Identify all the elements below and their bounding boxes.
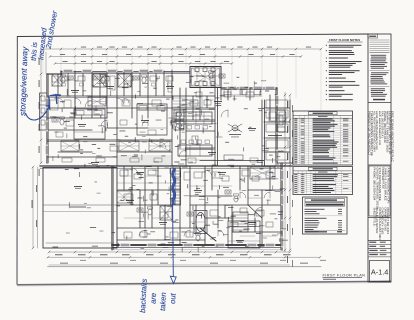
sinks — [69, 76, 75, 80]
svg-text:PHONE: (901) 555-0104: PHONE: (901) 555-0104 — [373, 168, 377, 201]
hall closet lines — [118, 155, 171, 157]
title block paragraphs — [371, 54, 387, 57]
bed master — [228, 221, 260, 248]
owner rotated text — [369, 166, 390, 216]
top extension verticals — [42, 49, 44, 74]
left dimension lines — [40, 52, 42, 163]
interior walls upper band — [57, 74, 59, 96]
blue note backstairs are taken out — [138, 278, 178, 313]
fireplace — [277, 110, 285, 132]
door arcs — [85, 100, 92, 107]
bed 1 — [74, 109, 105, 139]
notes list — [326, 44, 327, 47]
door schedule table — [293, 111, 353, 165]
square footage box — [303, 197, 348, 234]
svg-text:PROPERTY OF THE ARCHITECT: PROPERTY OF THE ARCHITECT — [368, 111, 372, 156]
sheet bottom border — [17, 281, 391, 285]
blue scribble over stairs — [173, 169, 175, 206]
svg-text:FIRST FLOOR PLAN: FIRST FLOOR PLAN — [323, 272, 366, 277]
architect rotated text — [368, 111, 395, 162]
far-left wing rooms — [40, 93, 48, 130]
svg-text:A-1.4: A-1.4 — [371, 267, 388, 276]
svg-text:backstairs: backstairs — [138, 278, 149, 313]
corridor long wall — [40, 165, 292, 167]
svg-text:SHEET TITLE:: SHEET TITLE: — [373, 208, 377, 227]
core small rooms detail — [188, 99, 198, 101]
svg-text:FIRST FLOOR NOTES: FIRST FLOOR NOTES — [329, 38, 360, 42]
blue arrow to storage — [26, 105, 50, 120]
svg-text:taken: taken — [158, 292, 168, 311]
blue leader line — [172, 205, 175, 277]
project rotated text — [373, 208, 391, 241]
sheet number box A-1.4 — [370, 261, 390, 282]
extra fine lines core — [186, 102, 200, 104]
upper bath vanities — [60, 76, 67, 81]
as-noted line — [373, 99, 385, 101]
bed 2 — [137, 104, 167, 135]
angled wall — [200, 228, 216, 241]
bottom dimension lines — [49, 251, 290, 253]
stamp rows — [368, 240, 391, 242]
title block strip — [368, 34, 391, 282]
blue crossout upper — [50, 94, 61, 97]
interior dim specks — [54, 97, 58, 100]
bottom outer wall — [112, 244, 282, 246]
interior walls lower band — [123, 166, 125, 190]
kitchen top counter — [221, 94, 262, 96]
built-in wall units right — [289, 100, 291, 163]
outer walls — [61, 71, 190, 73]
blue note this is increased 2nd shower — [29, 10, 59, 62]
top dimension lines — [43, 48, 321, 50]
tub oval — [194, 211, 207, 234]
kitchen island left — [176, 112, 212, 124]
revision rows — [370, 39, 390, 41]
showers — [93, 74, 106, 87]
great room clutter — [190, 100, 198, 106]
extra fixtures — [50, 100, 58, 110]
key double walls — [47, 97, 172, 99]
kitchen counter row2 — [178, 145, 212, 156]
svg-text:out: out — [168, 292, 178, 304]
room labels — [78, 124, 86, 125]
kitchen cabinetry row — [221, 96, 262, 98]
floor plan — [32, 47, 326, 267]
stair 2 — [233, 212, 248, 232]
ceiling fan great room — [232, 125, 238, 131]
garage left dims — [32, 167, 34, 248]
right dimension lines — [284, 92, 286, 252]
washer dryer — [174, 110, 184, 119]
sheet border left — [16, 36, 18, 285]
windows — [64, 70, 72, 72]
svg-text:are: are — [149, 293, 159, 304]
revision header box — [368, 34, 378, 38]
staircase (back stairs) — [171, 168, 181, 205]
sofas — [224, 155, 243, 160]
lower rooms clutter — [120, 170, 128, 176]
garage outline — [43, 168, 117, 249]
sheet border top — [18, 34, 369, 37]
window schedule table — [293, 167, 353, 195]
pantry shelves — [173, 97, 186, 99]
closets with X — [88, 97, 106, 106]
toilets — [61, 77, 65, 83]
